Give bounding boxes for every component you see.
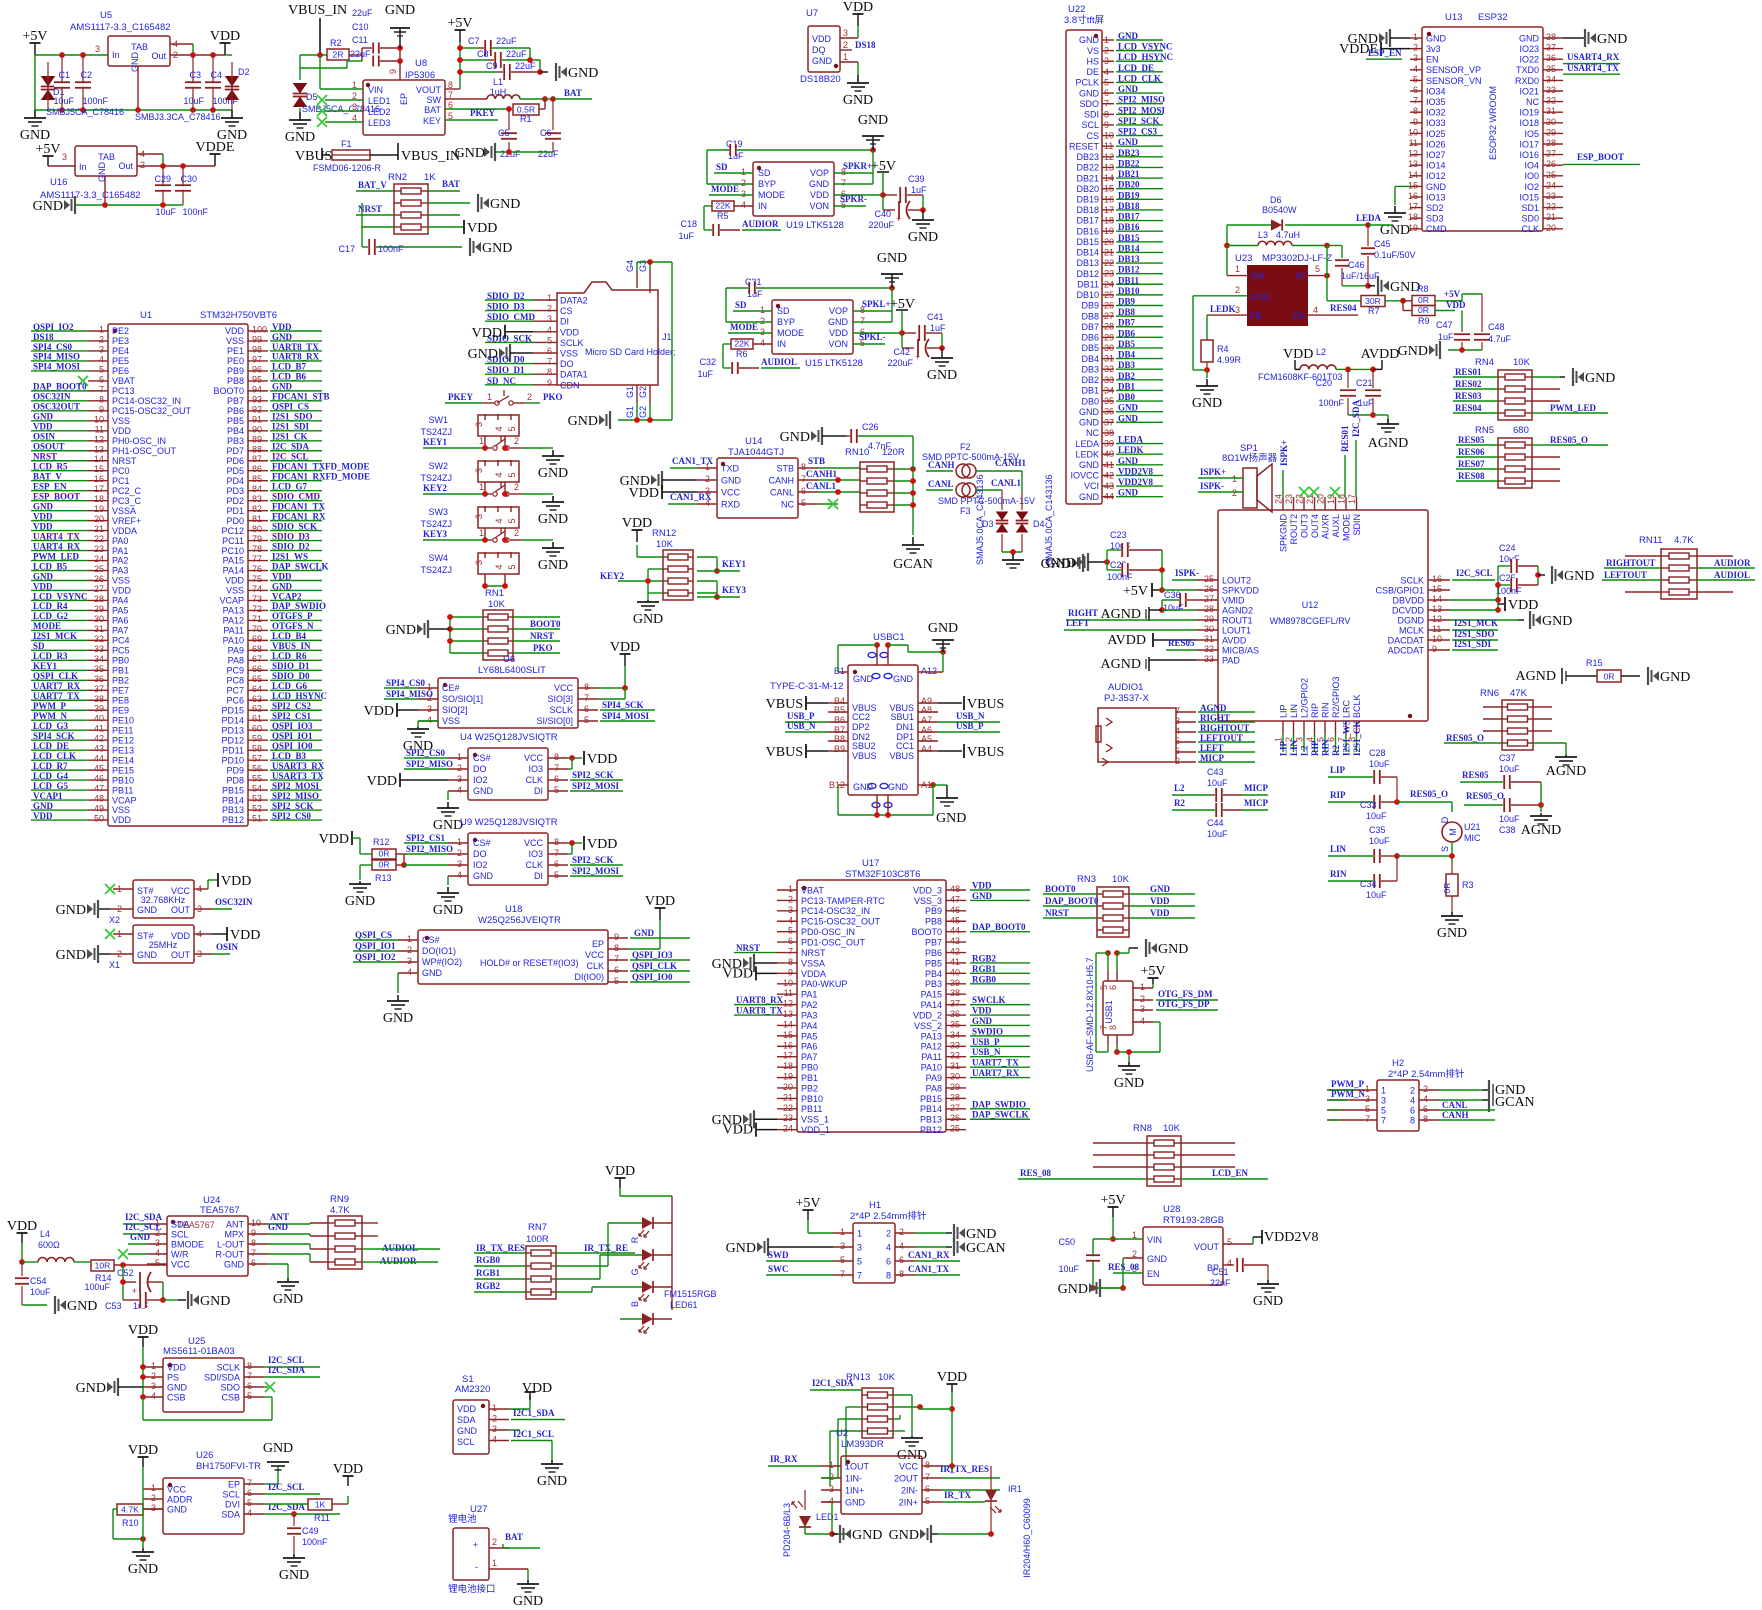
svg-text:RN6: RN6 <box>1480 688 1499 699</box>
ground flag <box>1082 554 1084 572</box>
svg-text:22uF: 22uF <box>506 49 527 59</box>
svg-text:+5V: +5V <box>22 29 47 44</box>
svg-text:VCAP: VCAP <box>112 795 137 805</box>
svg-text:3: 3 <box>1235 305 1240 315</box>
svg-text:U19 LTK5128: U19 LTK5128 <box>786 220 844 231</box>
svg-text:PS: PS <box>167 1373 179 1383</box>
capacitor C1 10uF <box>61 55 63 110</box>
svg-text:OTG_FS_DP: OTG_FS_DP <box>1158 999 1210 1009</box>
svg-text:PC13-TAMPER-RTC: PC13-TAMPER-RTC <box>801 896 885 906</box>
svg-text:5: 5 <box>840 1255 845 1265</box>
capacitor C8 22uF <box>460 59 488 61</box>
svg-text:VBUS: VBUS <box>295 149 332 164</box>
top pin 20 AUXR <box>1324 497 1326 510</box>
svg-text:BYP: BYP <box>758 179 776 189</box>
svg-text:24: 24 <box>783 1124 793 1134</box>
svg-text:VBUS: VBUS <box>766 745 803 760</box>
svg-text:RGB2: RGB2 <box>972 953 997 963</box>
power flag VDDE <box>1380 42 1382 56</box>
svg-text:R: R <box>630 1236 640 1243</box>
wire <box>1326 246 1328 301</box>
svg-text:24: 24 <box>1546 180 1556 190</box>
svg-text:USART4_TX: USART4_TX <box>1567 63 1619 73</box>
svg-text:IO25: IO25 <box>1426 129 1446 139</box>
ground <box>840 61 858 63</box>
svg-text:SDA: SDA <box>221 1510 240 1520</box>
svg-text:1: 1 <box>840 1227 845 1237</box>
wire gnd rail <box>1342 285 1368 287</box>
svg-text:C30: C30 <box>180 174 197 184</box>
svg-text:C45: C45 <box>1374 239 1391 249</box>
svg-text:VBAT: VBAT <box>112 376 135 386</box>
svg-text:RES01: RES01 <box>1340 425 1350 452</box>
svg-text:GND: GND <box>1058 1282 1088 1297</box>
svg-text:CS#: CS# <box>473 753 491 763</box>
svg-text:59: 59 <box>252 734 262 744</box>
wire bottom gnd <box>837 785 839 815</box>
ground AGND <box>1540 805 1542 812</box>
resistor R10 4.7K <box>117 1504 143 1515</box>
svg-text:4: 4 <box>457 870 462 880</box>
svg-text:+: + <box>132 1286 137 1296</box>
svg-text:8: 8 <box>1423 1114 1428 1124</box>
svg-text:IO13: IO13 <box>1426 192 1446 202</box>
bottom pin 5 RIN <box>1324 721 1326 734</box>
svg-text:W/R: W/R <box>171 1250 189 1260</box>
svg-text:PD12: PD12 <box>221 735 244 745</box>
svg-text:GND: GND <box>1398 344 1428 359</box>
svg-text:L1: L1 <box>493 77 503 87</box>
ground <box>891 274 893 288</box>
svg-text:R2: R2 <box>330 38 342 48</box>
svg-text:2: 2 <box>99 334 104 344</box>
svg-text:37: 37 <box>1546 43 1556 53</box>
svg-text:LED1: LED1 <box>368 96 391 106</box>
svg-text:PE7: PE7 <box>112 685 129 695</box>
svg-text:PA5: PA5 <box>112 606 128 616</box>
svg-text:22K: 22K <box>734 338 750 348</box>
svg-text:5: 5 <box>554 785 559 795</box>
svg-text:C34: C34 <box>1360 879 1377 889</box>
svg-text:R6: R6 <box>736 349 748 359</box>
svg-text:68: 68 <box>252 644 262 654</box>
svg-text:HS: HS <box>1086 56 1099 66</box>
svg-text:99: 99 <box>252 334 262 344</box>
power flag +5V <box>459 30 461 42</box>
wire gnd rail <box>35 109 232 111</box>
svg-text:VCC: VCC <box>721 488 741 498</box>
svg-text:MP3302DJ-LF-Z: MP3302DJ-LF-Z <box>1262 253 1332 264</box>
svg-text:I2C_SCL: I2C_SCL <box>1456 568 1493 578</box>
svg-text:DACDAT: DACDAT <box>1388 636 1425 646</box>
wire pin4 <box>1153 1021 1160 1023</box>
svg-text:DS18: DS18 <box>855 40 876 50</box>
wire gnd pin4 <box>821 1501 832 1503</box>
svg-text:GND: GND <box>285 130 315 145</box>
svg-text:DB13: DB13 <box>1076 258 1099 268</box>
svg-text:OUT: OUT <box>171 950 191 960</box>
svg-text:5: 5 <box>507 518 517 523</box>
svg-text:VDD_2: VDD_2 <box>913 1010 942 1020</box>
svg-text:GND: GND <box>972 1016 993 1026</box>
svg-text:5: 5 <box>247 1498 252 1508</box>
svg-text:73: 73 <box>252 594 262 604</box>
svg-text:SCLK: SCLK <box>549 705 573 715</box>
svg-text:GND: GND <box>1158 942 1188 957</box>
svg-text:CANH: CANH <box>928 460 955 470</box>
svg-text:5: 5 <box>584 715 589 725</box>
svg-text:B8: B8 <box>834 734 845 744</box>
svg-text:GND: GND <box>889 1528 919 1543</box>
svg-text:1: 1 <box>1381 1086 1386 1096</box>
svg-text:RES05_O: RES05_O <box>1410 789 1448 799</box>
svg-text:10uF: 10uF <box>183 96 204 106</box>
svg-text:UART7_TX: UART7_TX <box>972 1058 1019 1068</box>
svg-text:5: 5 <box>788 926 793 936</box>
svg-text:R2/GPIO3: R2/GPIO3 <box>1331 676 1341 718</box>
svg-text:100nF: 100nF <box>82 96 108 106</box>
svg-text:FB: FB <box>1250 311 1262 321</box>
svg-text:C1: C1 <box>58 70 70 80</box>
wire ispk+ <box>1282 470 1284 497</box>
wire von <box>853 343 885 345</box>
svg-text:DB2: DB2 <box>1081 375 1099 385</box>
ground flag <box>609 411 611 429</box>
svg-text:VBUS: VBUS <box>889 751 914 761</box>
svg-text:R-OUT: R-OUT <box>216 1250 245 1260</box>
svg-text:PC11: PC11 <box>222 536 244 546</box>
top pin 21 OUT4 <box>1314 497 1316 510</box>
svg-text:4: 4 <box>155 1248 160 1258</box>
svg-text:GND: GND <box>1437 926 1467 941</box>
ground flag <box>1538 574 1545 576</box>
svg-text:47: 47 <box>950 894 960 904</box>
svg-text:PD13: PD13 <box>221 725 244 735</box>
svg-text:U22: U22 <box>1068 4 1085 15</box>
svg-text:TS24ZJ: TS24ZJ <box>420 519 452 529</box>
svg-text:VDD: VDD <box>7 1219 37 1234</box>
svg-text:19: 19 <box>783 1072 793 1082</box>
svg-text:4: 4 <box>494 564 504 569</box>
inductor L1 1uH <box>445 98 487 100</box>
svg-text:U28: U28 <box>1163 1204 1180 1215</box>
svg-text:ADDR: ADDR <box>167 1495 193 1505</box>
svg-text:EN: EN <box>1426 55 1439 65</box>
svg-text:MIC: MIC <box>1464 833 1481 843</box>
ground <box>552 542 554 548</box>
svg-text:3: 3 <box>741 189 746 199</box>
svg-text:LED3: LED3 <box>368 118 391 128</box>
svg-text:SDA: SDA <box>457 1415 476 1425</box>
svg-text:TS24ZJ: TS24ZJ <box>420 565 452 575</box>
svg-text:LIN: LIN <box>1330 844 1347 854</box>
svg-text:VCI: VCI <box>1084 481 1099 491</box>
svg-text:C23: C23 <box>1110 530 1127 540</box>
svg-text:RN3: RN3 <box>1077 874 1096 885</box>
svg-text:220uF: 220uF <box>887 358 913 368</box>
svg-text:2OUT: 2OUT <box>894 1474 919 1484</box>
svg-text:4: 4 <box>886 1243 891 1253</box>
ground flag <box>469 238 471 256</box>
svg-text:6: 6 <box>554 774 559 784</box>
svg-text:PE8: PE8 <box>112 695 129 705</box>
svg-text:QSPI_IO1: QSPI_IO1 <box>355 941 396 951</box>
svg-text:36: 36 <box>1546 53 1556 63</box>
svg-text:RXD: RXD <box>721 500 741 510</box>
wire key3 <box>697 580 717 582</box>
svg-text:IO27: IO27 <box>1426 150 1446 160</box>
svg-text:C26: C26 <box>862 422 879 432</box>
svg-text:50: 50 <box>94 814 104 824</box>
svg-text:D2: D2 <box>238 67 250 77</box>
svg-text:PA14: PA14 <box>921 1000 942 1010</box>
power flag +5V <box>47 156 49 166</box>
svg-text:8: 8 <box>1108 1025 1118 1030</box>
svg-text:DB4: DB4 <box>1081 354 1099 364</box>
svg-text:C39: C39 <box>908 174 925 184</box>
svg-text:PB11: PB11 <box>112 785 133 795</box>
svg-text:2: 2 <box>1140 994 1145 1004</box>
svg-text:22uF: 22uF <box>496 36 517 46</box>
svg-text:KEY2: KEY2 <box>600 571 625 581</box>
wire vdd pin6 <box>853 332 902 334</box>
bottom pin 8 BCLK <box>1356 721 1358 734</box>
svg-text:8: 8 <box>554 752 559 762</box>
svg-text:R15: R15 <box>1586 658 1603 668</box>
svg-text:62: 62 <box>252 704 262 714</box>
wire gnd pin7 <box>853 321 892 323</box>
svg-text:C17: C17 <box>338 244 355 254</box>
svg-text:R11: R11 <box>314 1513 330 1523</box>
svg-text:CC2: CC2 <box>852 712 870 722</box>
svg-text:PA4: PA4 <box>801 1021 817 1031</box>
svg-text:4.7K: 4.7K <box>121 1504 139 1514</box>
svg-text:SPI2_SCK: SPI2_SCK <box>572 855 614 865</box>
svg-text:VDD: VDD <box>622 516 652 531</box>
svg-text:14: 14 <box>94 454 104 464</box>
svg-text:IO0: IO0 <box>1524 171 1539 181</box>
svg-text:7: 7 <box>925 1472 930 1482</box>
svg-text:PD3: PD3 <box>226 486 244 496</box>
rgb led FM1515RGB LED61 <box>619 1188 621 1196</box>
svg-text:SPKVDD: SPKVDD <box>1222 586 1260 596</box>
svg-text:MCLK: MCLK <box>1399 626 1424 636</box>
svg-text:SCLK: SCLK <box>560 338 584 348</box>
svg-text:I2C_SDA: I2C_SDA <box>268 1365 306 1375</box>
ground flag <box>1529 611 1531 629</box>
svg-text:VOP: VOP <box>829 306 848 316</box>
svg-text:CDN: CDN <box>560 380 580 390</box>
svg-text:VDD: VDD <box>367 774 397 789</box>
svg-text:+5V: +5V <box>1123 584 1148 599</box>
ground flag <box>477 194 479 212</box>
power flag VDD <box>142 1457 144 1467</box>
svg-text:U4 W25Q128JVSIQTR: U4 W25Q128JVSIQTR <box>460 732 558 743</box>
svg-text:26: 26 <box>94 574 104 584</box>
wire out <box>194 908 212 910</box>
svg-text:VDD: VDD <box>522 1381 552 1396</box>
svg-text:RN9: RN9 <box>330 1194 349 1205</box>
TVS diode D1 SMBJ5CA <box>34 55 36 110</box>
svg-text:RGB0: RGB0 <box>476 1255 501 1265</box>
svg-text:CSB: CSB <box>221 1393 240 1403</box>
svg-text:3: 3 <box>547 314 552 324</box>
svg-text:PWM_LED: PWM_LED <box>1550 403 1596 413</box>
svg-text:SW: SW <box>1250 271 1265 281</box>
svg-text:PA0-WKUP: PA0-WKUP <box>801 979 847 989</box>
svg-text:SW: SW <box>427 95 442 105</box>
svg-text:VDD: VDD <box>1508 598 1538 613</box>
ground <box>647 600 649 602</box>
svg-text:22uF: 22uF <box>515 61 536 71</box>
svg-text:3: 3 <box>492 1424 497 1434</box>
svg-text:MPX: MPX <box>224 1230 244 1240</box>
svg-text:17: 17 <box>1408 202 1418 212</box>
ground flag <box>1647 667 1649 685</box>
wire <box>529 48 531 60</box>
svg-text:ISPK+: ISPK+ <box>1200 467 1226 477</box>
svg-text:BOOT0: BOOT0 <box>911 927 942 937</box>
svg-text:Out: Out <box>118 161 133 171</box>
svg-text:USB_N: USB_N <box>972 1047 1001 1057</box>
svg-text:H2: H2 <box>1392 1058 1404 1069</box>
svg-text:VDD: VDD <box>210 29 240 44</box>
svg-text:6: 6 <box>251 1258 256 1268</box>
svg-text:LOUT1: LOUT1 <box>1222 626 1251 636</box>
svg-text:CSB/GPIO1: CSB/GPIO1 <box>1375 586 1424 596</box>
svg-text:ISPK-: ISPK- <box>1175 568 1199 578</box>
svg-text:C24: C24 <box>1499 543 1516 553</box>
pin 5 SCLK <box>533 341 557 343</box>
svg-text:LEFT: LEFT <box>1066 618 1090 628</box>
wire von <box>834 205 866 207</box>
ground <box>360 864 372 866</box>
svg-text:4.7K: 4.7K <box>1674 535 1694 546</box>
svg-text:9: 9 <box>251 1228 256 1238</box>
svg-text:PA5: PA5 <box>801 1031 817 1041</box>
svg-text:LEDA: LEDA <box>1075 439 1099 449</box>
pins top <box>876 645 878 665</box>
svg-text:10K: 10K <box>656 539 674 550</box>
svg-text:63: 63 <box>252 694 262 704</box>
svg-text:PB3: PB3 <box>925 979 942 989</box>
svg-text:PB13: PB13 <box>222 805 244 815</box>
svg-text:3: 3 <box>1295 737 1305 742</box>
svg-text:100R: 100R <box>526 1234 549 1245</box>
svg-text:VS: VS <box>1087 46 1099 56</box>
svg-text:8: 8 <box>554 837 559 847</box>
svg-text:DB20: DB20 <box>1076 184 1099 194</box>
svg-text:8: 8 <box>925 1460 930 1470</box>
svg-text:PB12: PB12 <box>222 815 244 825</box>
svg-text:VBUS: VBUS <box>766 697 803 712</box>
power flag VDD <box>857 14 859 26</box>
svg-text:BAT_V: BAT_V <box>358 180 387 190</box>
svg-text:A4: A4 <box>921 744 932 754</box>
svg-text:9: 9 <box>788 967 793 977</box>
svg-text:AUDIO1: AUDIO1 <box>1108 682 1143 693</box>
svg-text:35: 35 <box>950 1019 960 1029</box>
svg-text:44: 44 <box>950 926 960 936</box>
svg-text:R12: R12 <box>373 837 390 847</box>
svg-text:5: 5 <box>925 1496 930 1506</box>
svg-text:17: 17 <box>94 484 104 494</box>
svg-text:10uF: 10uF <box>1499 764 1520 774</box>
svg-text:SPI2_MOSI: SPI2_MOSI <box>572 781 620 791</box>
svg-text:R8: R8 <box>1417 284 1429 294</box>
svg-text:VOP: VOP <box>810 168 829 178</box>
svg-text:GND: GND <box>20 128 50 143</box>
ground <box>397 973 399 993</box>
svg-text:0R: 0R <box>379 859 390 869</box>
svg-text:DB10: DB10 <box>1076 290 1099 300</box>
svg-text:SPI4_MISO: SPI4_MISO <box>386 689 433 699</box>
svg-text:GND: GND <box>1564 569 1594 584</box>
svg-text:UART8_TX: UART8_TX <box>736 1006 783 1016</box>
svg-text:GND: GND <box>1660 670 1690 685</box>
svg-text:41: 41 <box>950 957 960 967</box>
svg-text:LY68L6400SLIT: LY68L6400SLIT <box>478 665 546 676</box>
ground <box>293 1554 295 1558</box>
svg-text:QSPI_IO0: QSPI_IO0 <box>632 972 673 982</box>
svg-text:38: 38 <box>94 694 104 704</box>
svg-text:7: 7 <box>788 947 793 957</box>
svg-text:PB5: PB5 <box>227 416 244 426</box>
svg-text:IR_RX: IR_RX <box>770 1454 798 1464</box>
svg-text:GND: GND <box>1046 556 1076 571</box>
svg-text:VDD: VDD <box>230 928 260 943</box>
svg-text:ESP_BOOT: ESP_BOOT <box>1577 152 1624 162</box>
svg-text:IO26: IO26 <box>1426 139 1446 149</box>
svg-text:LIP: LIP <box>1279 704 1289 718</box>
svg-text:34: 34 <box>1546 74 1556 84</box>
svg-text:3: 3 <box>95 44 100 54</box>
svg-text:100nF: 100nF <box>1107 572 1133 582</box>
svg-text:PD6: PD6 <box>226 456 244 466</box>
svg-text:PKO: PKO <box>533 643 553 653</box>
power flag VDD <box>529 1392 531 1400</box>
svg-text:35: 35 <box>1546 64 1556 74</box>
svg-text:GND: GND <box>513 1594 543 1609</box>
svg-text:3: 3 <box>1175 716 1180 726</box>
svg-text:46: 46 <box>950 905 960 915</box>
svg-text:8: 8 <box>1410 1116 1415 1126</box>
svg-text:4.7K: 4.7K <box>330 1205 350 1216</box>
svg-text:PA2: PA2 <box>112 556 128 566</box>
wire vop <box>853 310 892 312</box>
capacitor C30 100nF <box>182 166 184 205</box>
svg-text:PA10: PA10 <box>223 636 244 646</box>
svg-text:SPKL+: SPKL+ <box>862 299 891 309</box>
svg-text:13: 13 <box>783 1009 793 1019</box>
svg-text:23: 23 <box>1284 494 1294 504</box>
svg-text:2: 2 <box>1235 285 1240 295</box>
svg-text:PA11: PA11 <box>223 626 244 636</box>
svg-text:C6: C6 <box>540 128 552 138</box>
svg-text:25: 25 <box>1546 170 1556 180</box>
svg-text:120R: 120R <box>882 447 905 458</box>
wire <box>1002 551 1022 553</box>
svg-text:22K: 22K <box>715 200 731 210</box>
svg-text:PA2: PA2 <box>801 1000 817 1010</box>
wire bottom <box>1114 1049 1120 1055</box>
wire 1in- <box>837 1474 839 1478</box>
svg-text:2: 2 <box>457 763 462 773</box>
svg-text:IR_TX: IR_TX <box>944 1490 972 1500</box>
svg-text:VSS: VSS <box>112 576 130 586</box>
ground <box>1394 206 1396 213</box>
svg-text:IO32: IO32 <box>1426 108 1446 118</box>
